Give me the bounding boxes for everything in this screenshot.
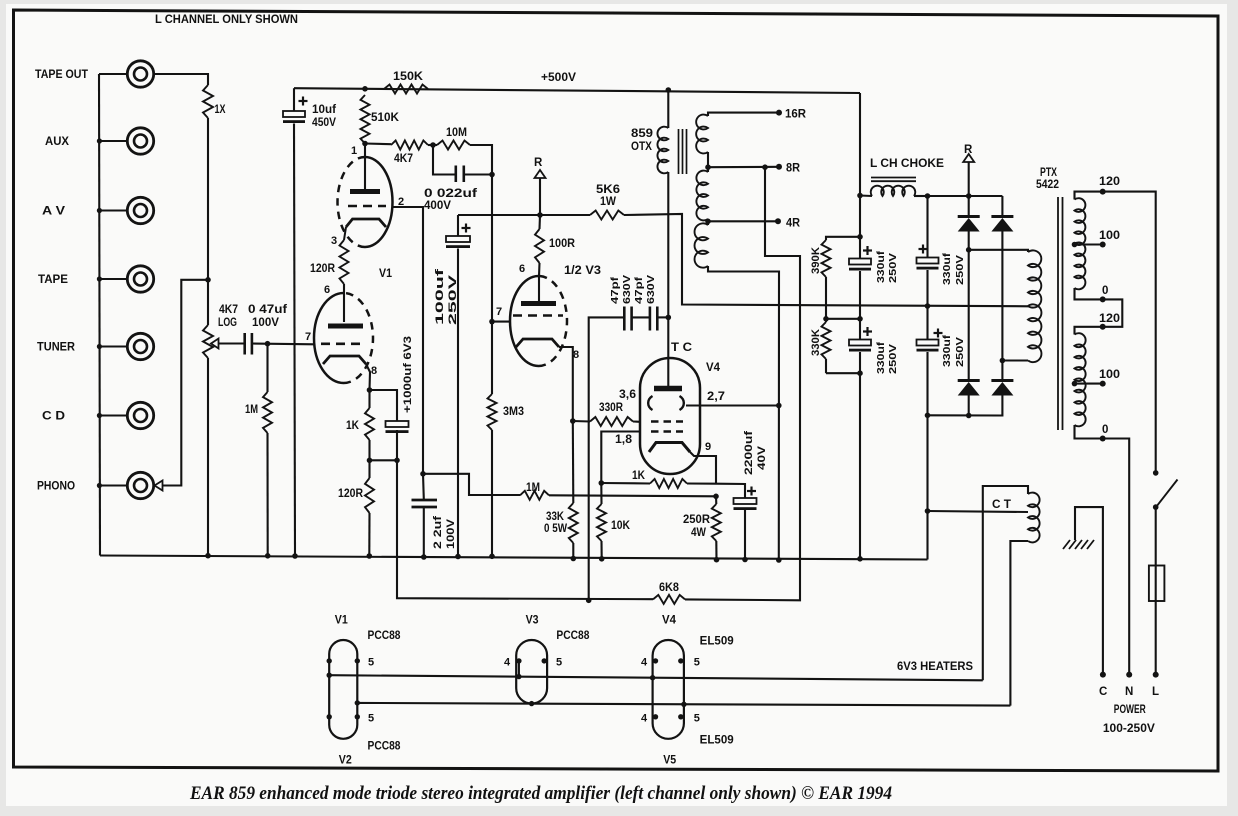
V3 pin4 stub — [518, 661, 520, 677]
node PSU mid point — [925, 303, 931, 309]
wire 120 B to winding — [1075, 327, 1103, 335]
V1b anode plate — [328, 324, 363, 329]
node stack mid right — [857, 316, 863, 322]
svg-text:250R: 250R — [683, 514, 711, 526]
svg-text:OTX: OTX — [631, 141, 652, 153]
wire 47pf left lead — [589, 317, 624, 600]
svg-text:4R: 4R — [786, 218, 801, 230]
wire stack to ground bus — [859, 373, 861, 559]
wire stub A V — [99, 209, 127, 211]
wire ground bus — [100, 556, 928, 560]
wire 4R tap — [708, 220, 778, 222]
svg-text:250V: 250V — [447, 274, 459, 325]
V1a cathode — [346, 219, 386, 227]
node 2.2uf ground — [421, 554, 427, 560]
node 47pf to anode riser — [666, 315, 672, 321]
resistor 330R — [573, 420, 590, 423]
svg-text:330uf: 330uf — [941, 252, 953, 285]
jack A V — [127, 197, 153, 223]
node secondary 8R — [705, 164, 711, 170]
svg-text:250V: 250V — [954, 337, 966, 367]
svg-text:10M: 10M — [446, 127, 467, 139]
wire heater winding bottom lead — [1010, 541, 1028, 706]
svg-text:R: R — [534, 157, 543, 169]
node cap bottom — [394, 458, 400, 464]
tube V4 envelope — [640, 358, 700, 474]
wire selector bus to pot — [207, 280, 209, 325]
svg-text:33K: 33K — [546, 511, 565, 523]
node line1 V4 — [650, 675, 655, 680]
svg-text:1K: 1K — [346, 420, 360, 432]
terminal 16R — [776, 110, 782, 116]
wire input ground bus vertical — [99, 74, 100, 556]
svg-text:C T: C T — [992, 499, 1011, 511]
svg-text:7: 7 — [305, 331, 311, 343]
PTX primary B winding — [1075, 333, 1086, 426]
svg-text:1/2 V3: 1/2 V3 — [564, 265, 601, 277]
svg-text:8: 8 — [573, 349, 579, 361]
wire heater line2 — [357, 703, 1010, 706]
svg-text:1K: 1K — [632, 470, 646, 482]
svg-text:4: 4 — [504, 657, 511, 669]
node 4K7 10M junction — [430, 142, 436, 148]
svg-text:N: N — [1125, 686, 1133, 698]
wire 0 B to N terminal — [1103, 439, 1130, 675]
wire 5K6 to PSU mid rail — [624, 214, 1030, 306]
resistor 1K V1b cathode — [368, 390, 370, 408]
wire stub C D — [99, 414, 127, 416]
node line2 V3 — [529, 701, 534, 706]
OTX core — [678, 129, 680, 174]
choke core — [871, 177, 916, 179]
svg-text:0: 0 — [1102, 424, 1108, 436]
wire HV winding bottom lead — [1002, 359, 1028, 361]
wire primary B bottom 0 tap — [1075, 425, 1103, 439]
OTX secondary winding middle — [696, 171, 708, 221]
node 10uf ground — [292, 553, 298, 559]
wire stack bottom row — [826, 372, 860, 374]
wire between 47pf caps — [632, 316, 650, 318]
svg-text:V4: V4 — [662, 615, 677, 627]
svg-text:40V: 40V — [756, 445, 768, 470]
capacitor 1000uf 6V3 — [386, 421, 409, 427]
V4 heater pins — [653, 658, 658, 663]
capacitor 10uf 450V — [293, 88, 295, 111]
svg-text:120: 120 — [1099, 176, 1120, 188]
PTX heater winding — [1028, 493, 1040, 543]
wire 6K8 to 8R riser — [685, 167, 800, 600]
terminal 100 B — [1100, 381, 1106, 387]
node line1 V3 — [516, 674, 521, 679]
svg-text:A V: A V — [42, 206, 65, 218]
node choke right — [925, 193, 931, 199]
wire cathode junction row — [370, 459, 398, 461]
wire 390K top lead — [826, 237, 860, 240]
wire stack riser — [859, 196, 861, 238]
svg-text:V2: V2 — [339, 755, 352, 767]
svg-text:AUX: AUX — [45, 136, 69, 148]
node 10K ground — [599, 556, 605, 562]
resistor 1M feedback — [520, 491, 549, 500]
wire minus to ground riser — [926, 415, 928, 511]
svg-text:4K7: 4K7 — [219, 304, 238, 316]
node grid2 1K row — [599, 480, 605, 486]
svg-text:6K8: 6K8 — [659, 582, 680, 594]
resistor 5K6 1W — [590, 211, 624, 220]
resistor 150K — [384, 85, 428, 94]
svg-text:100-250V: 100-250V — [1103, 723, 1155, 735]
svg-text:V5: V5 — [663, 755, 677, 767]
wire stub TAPE OUT — [99, 73, 127, 75]
tube V3 heater capsule — [516, 640, 547, 704]
wire D4 anode — [928, 396, 1003, 416]
svg-text:EL509: EL509 — [700, 636, 734, 648]
V3 anode plate — [521, 301, 556, 306]
node rectifier minus left — [966, 413, 972, 419]
node line2 V5 — [681, 702, 686, 707]
wire fuse to L terminal — [1155, 601, 1157, 675]
wire 1M to ground bus — [266, 433, 268, 556]
svg-text:3M3: 3M3 — [503, 406, 524, 418]
svg-text:PCC88: PCC88 — [556, 630, 590, 642]
wire stub TAPE — [99, 278, 127, 280]
capacitor 0.022uf 400V — [433, 145, 456, 175]
svg-text:2 2uf: 2 2uf — [432, 516, 444, 549]
svg-text:6: 6 — [324, 284, 330, 296]
potentiometer 4K7 LOG — [203, 325, 213, 358]
wire winding A top lead — [969, 250, 1028, 252]
svg-text:V4: V4 — [706, 362, 721, 374]
capacitor 330uf 250V right upper — [926, 196, 928, 258]
capacitor 100uf 250V — [457, 215, 459, 236]
V1a anode plate — [350, 189, 380, 194]
svg-text:4W: 4W — [691, 527, 706, 539]
terminal 4R — [775, 218, 781, 224]
wire rail to choke riser — [859, 93, 861, 196]
jack TAPE OUT — [127, 61, 153, 87]
wire riser to V3 grid — [491, 175, 493, 322]
wire 100 tap A — [1075, 243, 1103, 245]
V2 heater pins — [327, 714, 332, 719]
capacitor 0.47uf 100V — [243, 333, 246, 355]
resistor 6K8 — [653, 595, 685, 604]
terminal 100 A — [1100, 242, 1106, 248]
wire selector to PHONO — [162, 280, 208, 486]
node dot bus TUNER — [97, 344, 102, 349]
node heater CT junction — [925, 508, 931, 514]
svg-text:630V: 630V — [645, 275, 657, 304]
svg-text:10uf: 10uf — [312, 104, 336, 116]
wire pot bottom to ground bus — [207, 358, 209, 556]
resistor 3M3 — [491, 322, 493, 394]
wire grid2 row — [601, 432, 640, 484]
svg-text:+1000uf 6V3: +1000uf 6V3 — [402, 336, 414, 413]
OTX primary winding — [657, 127, 668, 174]
svg-text:100: 100 — [1099, 369, 1120, 381]
svg-text:C: C — [1099, 686, 1107, 698]
tube V1 V2 heater capsule — [329, 640, 357, 739]
wire series link A to B — [1103, 299, 1123, 326]
wire heater winding top lead — [983, 486, 1028, 680]
wire heater center tap — [928, 511, 1029, 512]
svg-text:47pf: 47pf — [633, 276, 645, 304]
wire feedback riser to 6K8 row — [397, 460, 653, 599]
wire 10M to V3 riser — [470, 145, 492, 174]
svg-text:5: 5 — [694, 713, 700, 725]
svg-text:4: 4 — [641, 713, 648, 725]
diode D1 upper-left — [968, 196, 970, 215]
jack PHONO — [127, 472, 153, 498]
V1 heater pins — [327, 658, 332, 663]
chassis ground symbol — [1063, 540, 1070, 549]
node grid junction — [265, 341, 271, 347]
wire 330K bottom — [825, 359, 827, 373]
node secondary 4R — [705, 219, 711, 225]
node rectifier minus — [925, 413, 931, 419]
svg-text:390K: 390K — [810, 247, 822, 274]
svg-text:1,8: 1,8 — [615, 434, 633, 446]
svg-text:V1: V1 — [379, 268, 393, 280]
svg-text:0 47uf: 0 47uf — [248, 304, 287, 316]
svg-text:859: 859 — [631, 128, 653, 140]
wire V4 cathode lead — [690, 452, 716, 484]
jack AUX — [127, 128, 153, 154]
resistor 4K7 grid stopper — [391, 141, 428, 150]
wire junction down to 1M — [266, 344, 268, 392]
resistor 250R 4W — [715, 496, 717, 504]
resistor 33K 0.5W — [572, 421, 575, 503]
svg-text:510K: 510K — [371, 112, 400, 124]
node dot bus A V — [97, 208, 102, 213]
wire stub AUX — [99, 140, 127, 142]
wire 1M feedback row — [423, 474, 520, 495]
svg-text:L CHANNEL ONLY SHOWN: L CHANNEL ONLY SHOWN — [155, 12, 298, 26]
svg-text:450V: 450V — [312, 117, 336, 129]
wire top cap lead — [667, 317, 669, 387]
wire 120R to V1b anode — [343, 284, 345, 322]
V3 grid dashes — [513, 314, 563, 317]
wire V3 supply row — [458, 214, 590, 216]
wire to V3 pin7 — [492, 321, 511, 323]
svg-text:TUNER: TUNER — [37, 342, 76, 354]
capacitor 330uf 250V upper-left — [849, 259, 871, 265]
capacitor 330uf 250V lower-left — [849, 340, 871, 346]
OTX secondary winding upper — [696, 115, 708, 154]
node rectifier plus — [966, 193, 972, 199]
node rail OTX primary — [666, 87, 672, 93]
svg-text:47pf: 47pf — [609, 276, 621, 304]
V3 heater pins — [516, 658, 521, 663]
diode D4 lower-right — [1001, 361, 1003, 380]
node rail 150K left — [362, 86, 368, 92]
wire selector bus vertical — [207, 118, 209, 280]
node choke left — [857, 193, 863, 199]
resistor 120R lower — [368, 460, 370, 478]
node 2200uf ground — [742, 557, 748, 563]
svg-text:L CH CHOKE: L CH CHOKE — [870, 158, 944, 170]
resistor 10M — [437, 141, 470, 150]
svg-text:100uf: 100uf — [434, 268, 446, 325]
svg-text:LOG: LOG — [218, 317, 237, 329]
tube V1a envelope — [365, 157, 393, 247]
selector arrowhead at PHONO — [155, 481, 163, 491]
wire B+ rail — [294, 88, 860, 93]
wire secondary bottom to ground — [708, 266, 779, 560]
resistor 1K V4 — [601, 482, 650, 485]
svg-text:5: 5 — [368, 713, 374, 725]
V1b cathode — [323, 356, 366, 364]
node 250R ground — [714, 557, 720, 563]
svg-text:1M: 1M — [526, 482, 540, 494]
node 1M to cathode riser — [713, 494, 719, 500]
svg-text:5: 5 — [368, 657, 374, 669]
PTX primary A winding — [1075, 198, 1086, 289]
node primary A 100 tap — [1072, 242, 1078, 248]
wire wiper to capacitor — [219, 342, 245, 344]
node secondary ground — [776, 557, 782, 563]
svg-text:120: 120 — [1099, 313, 1120, 325]
terminal 120 B — [1100, 324, 1106, 330]
wire V1a cathode lead — [344, 227, 346, 240]
svg-text:0: 0 — [1102, 285, 1108, 297]
svg-text:PTX: PTX — [1040, 167, 1057, 179]
node R arrow junction — [537, 212, 543, 218]
svg-text:3,6: 3,6 — [619, 389, 636, 401]
wire cap to V1b grid — [252, 342, 315, 345]
svg-text:POWER: POWER — [1114, 704, 1147, 716]
svg-text:330uf: 330uf — [875, 341, 887, 374]
node 390K top — [857, 234, 863, 240]
wire D3 anode — [968, 396, 970, 416]
PTX HV winding lower — [1028, 304, 1041, 362]
terminal C — [1100, 672, 1106, 678]
terminal 120 A — [1100, 189, 1106, 195]
svg-text:5: 5 — [556, 657, 562, 669]
svg-text:+500V: +500V — [541, 70, 576, 84]
wire D1 anode — [968, 232, 970, 250]
node line1 V1 — [327, 673, 332, 678]
OTX secondary winding lower — [695, 223, 708, 267]
svg-text:PCC88: PCC88 — [368, 630, 402, 642]
resistor 1M input — [263, 392, 272, 433]
wire secondary 16R tap — [708, 113, 779, 116]
tube V3 envelope — [510, 276, 539, 366]
wire 120 to switch riser — [1103, 192, 1156, 473]
pot wiper arrow — [211, 339, 219, 349]
wire heater line1 — [329, 675, 983, 680]
V3 cathode — [516, 339, 559, 347]
V4 grid1 dashes — [651, 420, 683, 423]
node pot ground — [205, 553, 211, 559]
wire 1K row to 2200uf — [716, 484, 745, 498]
svg-text:250V: 250V — [887, 253, 899, 283]
capacitor 47pf 630V first — [623, 307, 626, 331]
svg-text:1W: 1W — [600, 196, 616, 208]
node winding A top — [966, 247, 972, 253]
wire bus right riser — [926, 511, 928, 560]
jack TAPE — [127, 266, 153, 292]
svg-text:EL509: EL509 — [700, 735, 734, 747]
svg-text:630V: 630V — [621, 275, 633, 304]
wire 390K bottom — [825, 277, 827, 319]
node 33K ground — [571, 556, 577, 562]
switch contact top — [1153, 470, 1159, 476]
svg-text:5K6: 5K6 — [596, 184, 620, 196]
node 1M ground — [265, 553, 271, 559]
node line2 V2 — [355, 700, 360, 705]
node 3M3 ground — [489, 554, 495, 560]
node stack ground — [857, 556, 863, 562]
inductor L CH CHOKE — [860, 194, 872, 197]
terminal 0 A — [1100, 296, 1106, 302]
svg-text:1: 1 — [351, 145, 357, 157]
jack C D — [127, 402, 153, 428]
capacitor 330uf 250V right lower — [926, 306, 928, 340]
svg-text:0 5W: 0 5W — [544, 523, 567, 535]
svg-text:6V3 HEATERS: 6V3 HEATERS — [897, 661, 973, 673]
svg-text:V1: V1 — [335, 615, 349, 627]
svg-text:330uf: 330uf — [875, 250, 887, 283]
wire V1a grid to pin2 line — [393, 207, 424, 474]
V1a grid dashes — [348, 205, 386, 208]
jack TUNER — [127, 333, 153, 359]
diode D2 upper-right — [1001, 196, 1003, 215]
wire stub TUNER — [99, 345, 127, 347]
resistor 10K — [600, 483, 602, 504]
resistor 510K — [361, 95, 370, 144]
svg-text:4: 4 — [641, 657, 648, 669]
wire switch to fuse — [1155, 507, 1157, 565]
svg-text:120R: 120R — [338, 488, 364, 500]
V1b grid dashes — [321, 342, 364, 345]
capacitor 2200uf 40V — [734, 498, 757, 504]
V4 grid2 dashes — [651, 430, 683, 433]
node V3 cathode to 330R — [570, 418, 576, 424]
wire to 1000uf cap — [370, 390, 398, 421]
capacitor 2.2uf 100V — [422, 474, 425, 499]
terminal 0 B — [1100, 436, 1106, 442]
svg-text:TAPE OUT: TAPE OUT — [35, 69, 88, 81]
PTX HV winding upper — [1028, 250, 1041, 307]
wire pin1 into V1 — [364, 144, 366, 190]
svg-text:9: 9 — [705, 441, 711, 453]
node cathode junction V1b — [367, 387, 373, 393]
wire stack mid row — [826, 318, 860, 320]
wire V1b cathode lead — [366, 364, 370, 390]
svg-text:TAPE: TAPE — [38, 274, 68, 286]
node selector bus — [205, 277, 211, 283]
node 8R tap junction — [762, 164, 768, 170]
wire stub PHONO — [99, 484, 127, 486]
V4 cathode — [649, 443, 690, 453]
svg-text:6: 6 — [519, 263, 525, 275]
svg-text:5: 5 — [694, 657, 700, 669]
fuse — [1149, 566, 1165, 602]
resistor 100R V3 anode — [538, 215, 541, 229]
svg-text:V3: V3 — [526, 615, 539, 627]
node 6K8 row junction — [586, 598, 592, 604]
switch pivot — [1153, 504, 1159, 510]
svg-text:10K: 10K — [611, 520, 631, 532]
node cap to riser — [489, 172, 495, 178]
node dot bus TAPE — [97, 276, 102, 281]
svg-text:330uf: 330uf — [941, 334, 953, 367]
svg-text:120R: 120R — [310, 263, 336, 275]
V4 anode plate — [654, 386, 682, 392]
terminal L — [1153, 672, 1159, 678]
svg-text:4K7: 4K7 — [394, 153, 413, 165]
svg-text:250V: 250V — [954, 255, 966, 285]
